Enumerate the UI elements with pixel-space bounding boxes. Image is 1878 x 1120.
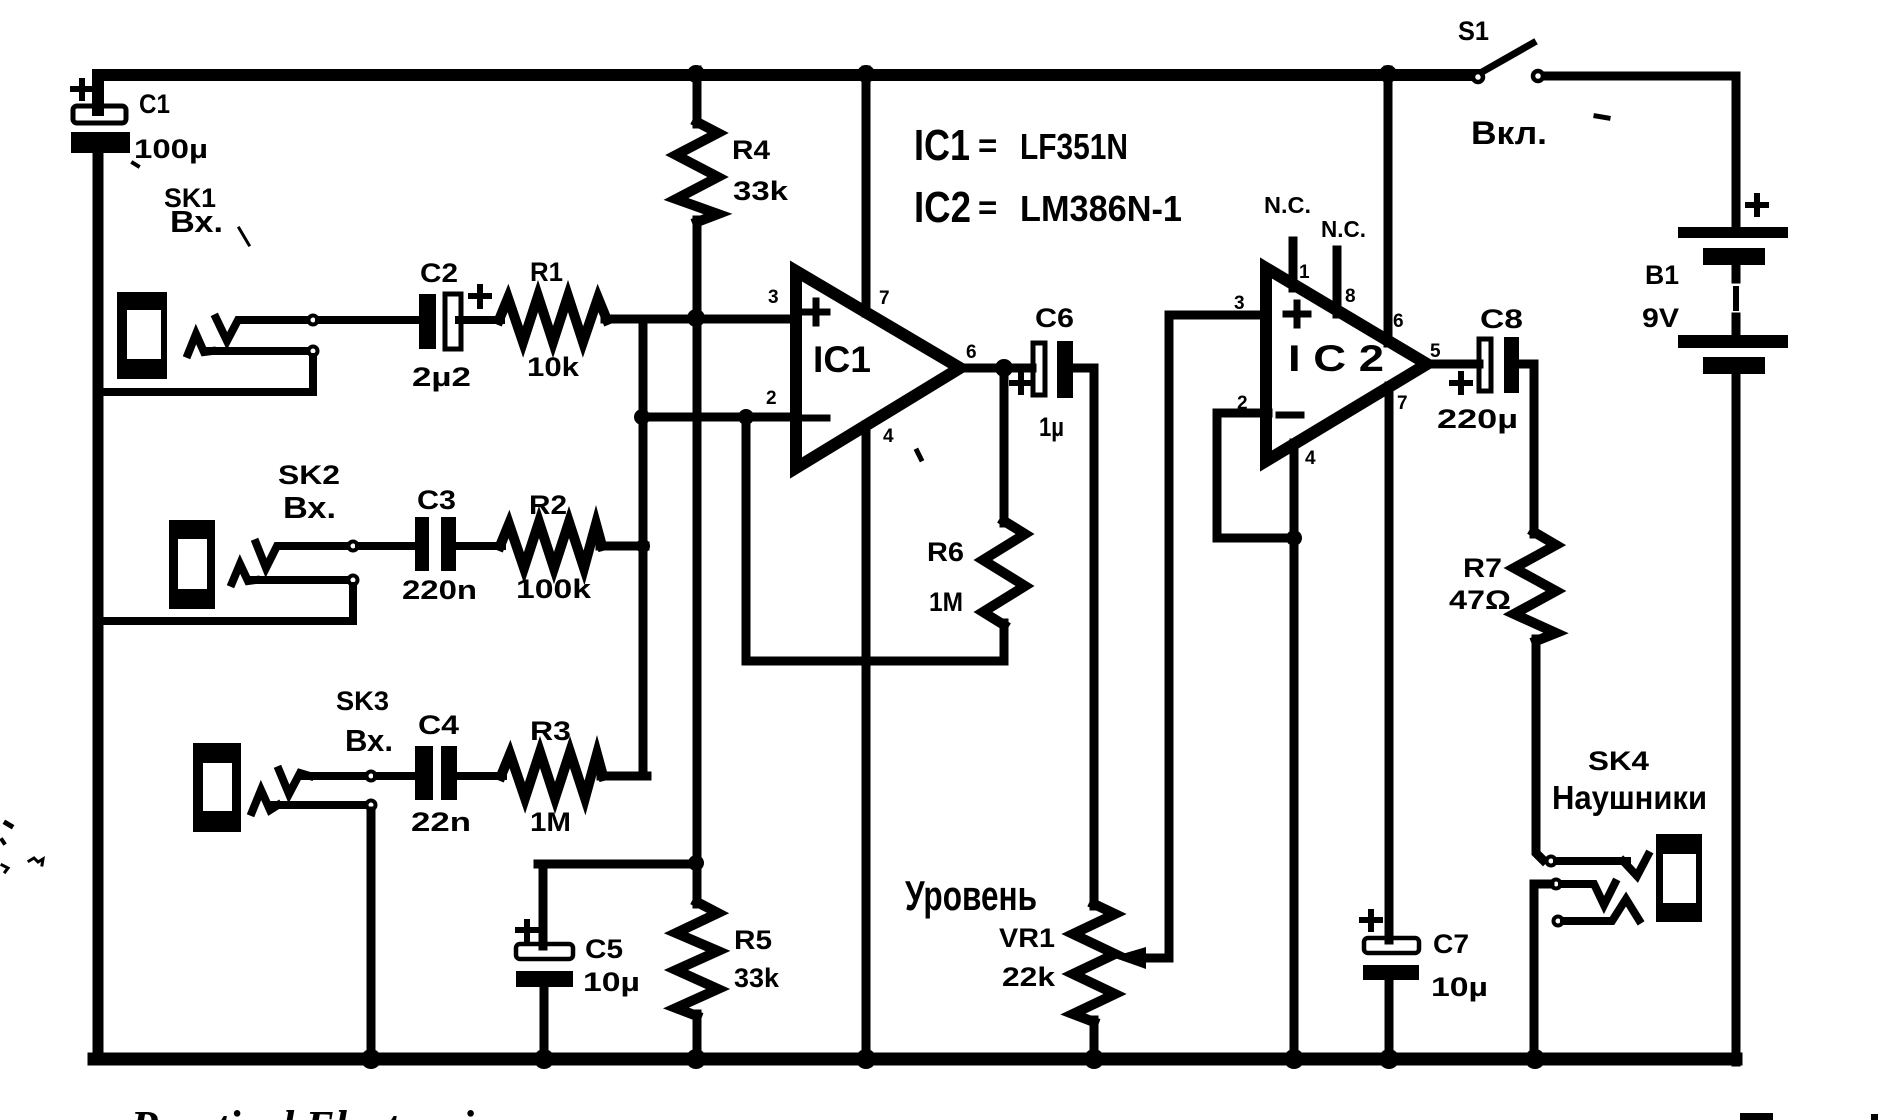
svg-text:220µ: 220µ [1437,404,1518,434]
node R5 top / C5 [688,855,704,871]
svg-text:из Practical Electronics: из Practical Electronics [78,1102,511,1120]
jack SK2 [169,520,215,609]
svg-text:6: 6 [966,342,977,363]
wire IC1 output [958,364,1032,373]
svg-text:47Ω: 47Ω [1449,585,1511,615]
wire top supply rail [98,75,1477,110]
svg-text:LF351N: LF351N [1020,126,1128,167]
IC2 pin1 N.C. stub [1289,241,1298,288]
svg-text:R1: R1 [530,257,563,287]
caption fragment bottom right [1740,1113,1878,1120]
svg-text:22k: 22k [1002,962,1056,992]
wire C6 to VR1 [1073,368,1094,906]
wire SK2 tip to C3 [284,542,347,550]
svg-text:SK3: SK3 [336,686,389,716]
wire input mixing column [639,319,648,776]
node IC2 pin4 ground [1284,1049,1304,1069]
resistor R4 [676,70,718,904]
jack SK4 [1656,834,1702,922]
wire switch to battery top [1544,76,1736,230]
resistor R5 [676,902,718,1059]
node IC1 output [995,359,1013,377]
resistor R3 [501,752,603,798]
svg-text:SK2: SK2 [278,460,340,490]
battery B1 [1678,196,1788,374]
SK3 tip contact [279,770,310,794]
wire IC2 pin6 supply [1384,70,1393,343]
svg-text:IC1: IC1 [914,121,970,170]
node VR1 ground [1084,1049,1104,1069]
wire C3 to R2 [456,542,502,550]
svg-text:1µ: 1µ [1039,412,1064,442]
wire R3 to column [601,772,647,781]
SK1 tip contact [216,318,250,341]
capacitor C1 [71,81,130,153]
node IC1 pin7 top rail [857,65,875,83]
wire to IC1 pin2 [643,413,801,422]
wire SK2 sleeve return [252,576,347,584]
svg-text:8: 8 [1345,286,1356,307]
wire C2 to R1 [459,316,501,324]
capacitor C8 [1452,337,1519,393]
svg-text:R2: R2 [529,490,567,520]
svg-text:IC2: IC2 [914,183,971,232]
svg-text:4: 4 [883,426,894,447]
svg-text:2µ2: 2µ2 [412,362,471,392]
wire R2 to column [600,542,645,551]
wire SK3 sleeve to ground rail [274,801,365,809]
svg-text:VR1: VR1 [999,923,1055,953]
svg-text:9V: 9V [1642,303,1679,333]
wire R1 to IC1 pin3 [605,315,801,324]
node feedback/pin2 [738,409,754,425]
wire IC1 pin4 to ground [862,425,871,1059]
svg-text:SK4: SK4 [1588,746,1649,776]
wire SK3 tip to C4 [300,772,365,780]
svg-text:7: 7 [1397,393,1408,414]
svg-text:C8: C8 [1480,304,1523,334]
svg-text:Наушники: Наушники [1552,779,1707,816]
potentiometer VR1 [1073,315,1268,1059]
svg-text:3: 3 [768,287,779,308]
node IC2 pin6 top rail [1379,65,1397,83]
svg-text:Вкл.: Вкл. [1471,115,1547,151]
svg-text:R3: R3 [530,716,571,746]
jack SK3 [193,743,241,832]
wire SK1 tip to C2 [246,316,306,324]
svg-text:10k: 10k [527,352,580,382]
capacitor C4 [415,746,457,800]
IC2 pin8 N.C. stub [1333,250,1342,314]
svg-text:1M: 1M [530,807,571,837]
svg-text:3: 3 [1234,293,1245,314]
capacitor C3 [415,517,456,571]
svg-text:4: 4 [1305,448,1316,469]
svg-text:Вх.: Вх. [345,723,393,758]
node R4 top rail [687,65,705,83]
svg-text:220n: 220n [402,575,477,605]
SK1 sleeve contact [188,334,212,354]
wire IC2 output [1425,360,1479,369]
svg-text:1M: 1M [929,587,963,617]
resistor R6 [746,368,1025,661]
svg-text:C5: C5 [585,934,623,964]
resistor R1 [499,296,607,342]
node mixing/pin2 [634,409,650,425]
capacitor C6 [1012,341,1073,398]
svg-text:7: 7 [879,288,890,309]
svg-text:S1: S1 [1458,16,1489,46]
svg-text:Вх.: Вх. [283,490,336,525]
resistor R7 [1514,532,1556,860]
svg-text:100k: 100k [516,574,592,604]
svg-text:R6: R6 [927,537,964,567]
svg-text:=: = [978,189,997,226]
SK2 tip contact [256,543,288,568]
node C7 ground [1379,1049,1399,1069]
svg-text:=: = [978,127,997,164]
node R2 column [636,539,650,553]
wire IC2 pin4 ground [1290,443,1299,1059]
node SK3 ground [361,1049,381,1069]
svg-text:I C 2: I C 2 [1288,338,1384,379]
svg-text:100µ: 100µ [134,134,208,164]
SK3 sleeve contact [252,790,278,812]
wire IC2 pin7 bypass [1385,386,1394,940]
svg-text:22n: 22n [411,807,471,837]
ic equivalence note [914,121,1182,232]
SK2 sleeve contact [232,564,256,583]
svg-text:R7: R7 [1463,553,1502,583]
capacitor C5 [516,864,697,1059]
svg-text:1: 1 [1299,262,1310,283]
wire C8 to R7 [1519,364,1534,534]
svg-text:B1: B1 [1645,260,1679,290]
node C5 ground [534,1049,554,1069]
wire SK1 sleeve return [208,347,306,355]
wire bottom ground rail [94,1053,1736,1066]
wire C4 to R3 [457,772,503,780]
svg-text:IC1: IC1 [813,339,871,380]
stray scan marks [2,116,1608,872]
svg-text:N.C.: N.C. [1264,192,1311,218]
svg-text:C6: C6 [1035,303,1074,333]
svg-text:C3: C3 [417,485,456,515]
op-amp IC1 [796,271,960,468]
node SK4 ground [1525,1049,1545,1069]
svg-text:C4: C4 [418,710,459,740]
capacitor C2 [419,287,489,349]
op-amp IC2 [1266,268,1427,461]
SK4 sleeve contact [1554,917,1563,926]
svg-text:5: 5 [1430,341,1441,362]
svg-text:C2: C2 [420,258,458,288]
SK4 tip contact [1547,857,1556,866]
switch S1 [1473,43,1543,82]
svg-text:R4: R4 [732,135,770,165]
svg-text:10µ: 10µ [583,967,640,997]
svg-text:33k: 33k [734,963,780,993]
node IC1 pin4 ground [856,1049,876,1069]
wire left ground rail [93,150,104,1059]
svg-text:N.C.: N.C. [1321,216,1366,242]
svg-text:33k: 33k [733,176,789,206]
svg-text:R5: R5 [734,925,772,955]
svg-text:LM386N-1: LM386N-1 [1020,188,1182,229]
svg-text:6: 6 [1393,311,1404,332]
SK4 ring contact [1552,880,1561,889]
wire battery bottom to ground rail [1732,372,1741,1062]
node IC2 pin2/pin4 [1286,530,1302,546]
svg-text:Уровень: Уровень [905,872,1037,919]
capacitor C7 [1362,912,1419,1059]
svg-text:C7: C7 [1433,929,1469,959]
jack SK1 [117,292,167,379]
wire IC2 pin2 feedback loop [1217,413,1296,538]
svg-text:C1: C1 [139,89,170,119]
node R4 bias [687,309,705,327]
resistor R2 [500,522,602,568]
svg-text:Вх.: Вх. [170,204,223,239]
node R5 bottom [686,1049,706,1069]
svg-text:10µ: 10µ [1431,972,1488,1002]
svg-text:2: 2 [766,388,777,409]
wire IC1 pin7 [862,70,871,313]
